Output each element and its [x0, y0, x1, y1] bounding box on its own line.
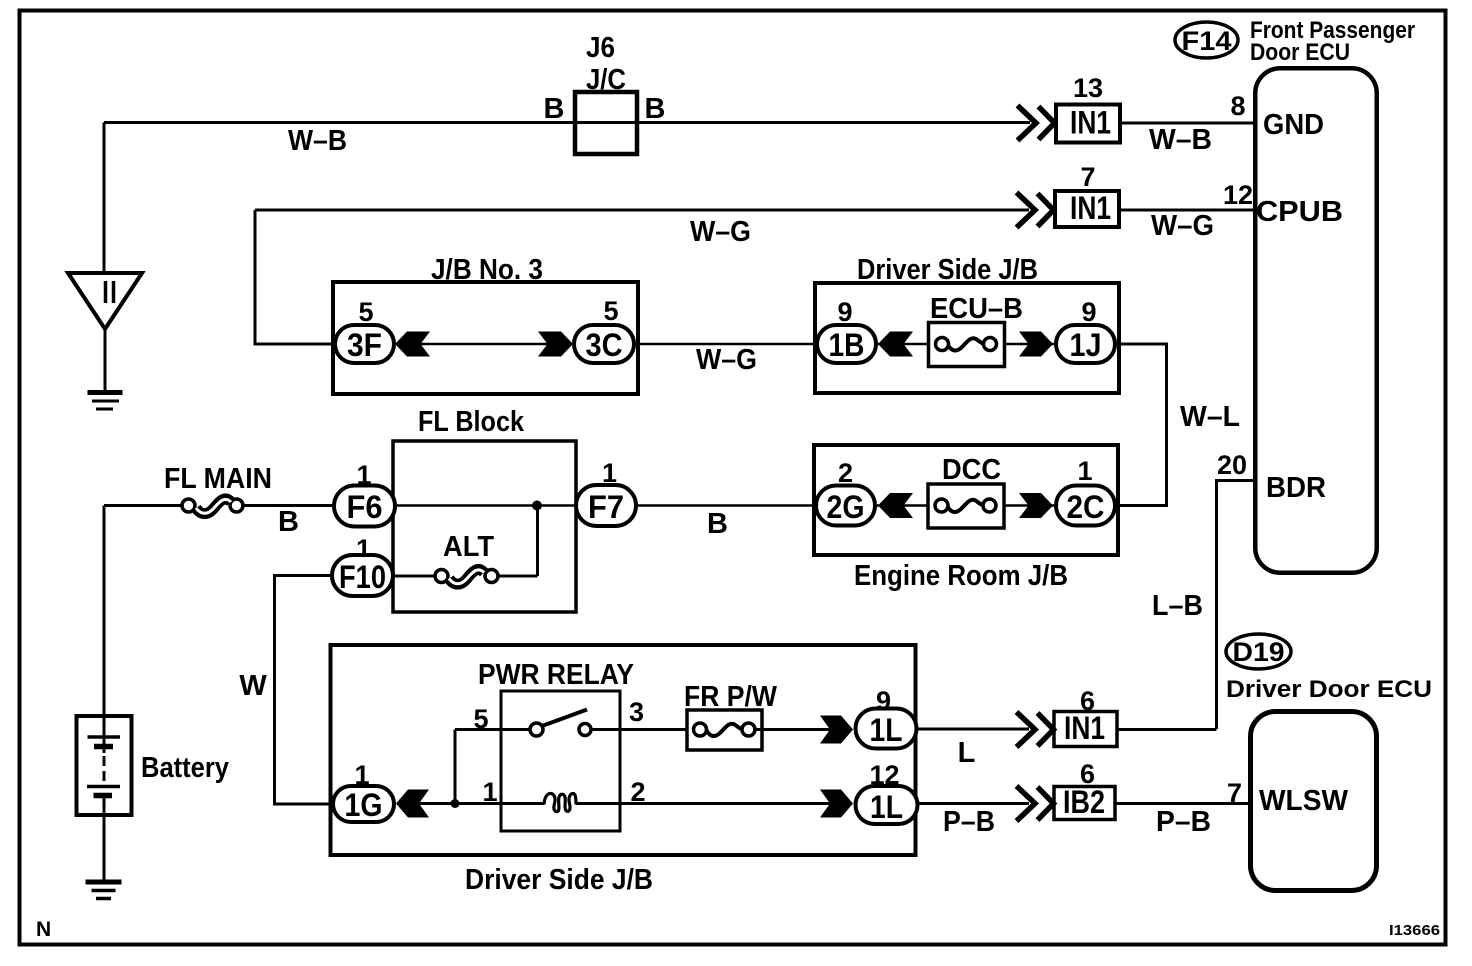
svg-text:5: 5: [358, 297, 373, 327]
svg-text:9: 9: [837, 297, 852, 327]
connector F10 pill: [332, 555, 393, 596]
wire battery to chassis ground: [103, 798, 106, 880]
svg-text:J/C: J/C: [586, 64, 626, 96]
svg-text:Driver Side J/B: Driver Side J/B: [465, 864, 653, 896]
wire pin5: [455, 728, 530, 731]
wire W-B top horizontal: [104, 121, 1030, 124]
connector D19 oval: [1226, 634, 1291, 669]
connector 1B pill: [817, 325, 876, 363]
fuse FR P/W box: [687, 710, 762, 750]
svg-text:1G: 1G: [345, 787, 383, 823]
wire pin5 vertical from junction: [454, 730, 457, 804]
svg-text:3: 3: [629, 697, 644, 727]
wire 2G to fuse: [876, 504, 938, 507]
svg-text:D19: D19: [1233, 637, 1285, 667]
wire W-G horizontal: [255, 209, 1029, 212]
junction block Driver Side J/B lower box: [331, 645, 916, 855]
connector F14 oval: [1175, 22, 1238, 58]
svg-text:W–B: W–B: [1149, 124, 1212, 156]
svg-text:B: B: [645, 93, 666, 125]
wire triangle to chassis ground: [104, 329, 107, 391]
svg-text:B: B: [278, 506, 299, 538]
relay coil: [544, 793, 576, 811]
svg-text:B: B: [544, 93, 565, 125]
svg-text:P–B: P–B: [943, 806, 995, 838]
wire 3C to 1B: [634, 343, 817, 346]
svg-text:Engine Room J/B: Engine Room J/B: [854, 560, 1068, 592]
svg-text:20: 20: [1217, 450, 1247, 480]
svg-text:W: W: [239, 670, 267, 702]
wire fuse to 1L top: [755, 728, 831, 731]
connector IN1 pin6 box: [1054, 712, 1117, 747]
junction block J/B No.3 box: [333, 282, 638, 394]
junction dot on F6-F7 wire: [532, 501, 542, 511]
svg-text:FR P/W: FR P/W: [684, 681, 778, 713]
svg-text:BDR: BDR: [1266, 472, 1326, 504]
body ground triangle with II: [68, 273, 142, 329]
svg-text:2C: 2C: [1067, 489, 1105, 525]
wire IN1 to L-B: [1117, 728, 1217, 731]
chevrons into IN1 pin6: [1017, 712, 1054, 747]
connector 1L bottom pill: [856, 786, 918, 824]
svg-text:1L: 1L: [870, 789, 903, 825]
FL Block box: [393, 441, 576, 612]
wire BDR to L-B vertical: [1217, 481, 1254, 730]
connector F6 pill: [334, 486, 395, 527]
chevrons into IB2: [1017, 786, 1054, 821]
wire coil to pin2 out: [576, 802, 831, 805]
svg-text:1B: 1B: [829, 327, 865, 363]
Driver Door ECU outline: [1251, 712, 1377, 891]
fuse ECU-B box: [929, 323, 1005, 367]
svg-text:P–B: P–B: [1156, 806, 1211, 838]
wire F6 to F7: [395, 504, 576, 507]
wire W-G vertical down to 3F: [255, 210, 334, 344]
chassis ground top-left: [88, 390, 123, 395]
svg-text:13: 13: [1073, 73, 1103, 103]
wire W-B vertical to body ground: [103, 123, 106, 274]
wire F10 through ALT up to junction: [393, 508, 538, 576]
chevrons into IN1 pin13: [1018, 106, 1055, 141]
svg-text:1: 1: [1077, 456, 1092, 486]
wire F7 to 2G: [636, 504, 817, 507]
svg-text:W–G: W–G: [690, 216, 751, 248]
svg-text:F14: F14: [1182, 26, 1232, 56]
svg-text:ECU–B: ECU–B: [930, 293, 1023, 325]
svg-text:W–B: W–B: [288, 125, 347, 157]
svg-text:1J: 1J: [1070, 327, 1102, 363]
wire F10 to W vertical to 1G: [275, 576, 334, 805]
wire battery to FL MAIN to F6: [104, 504, 334, 507]
connector F7 pill: [576, 485, 636, 526]
svg-text:Driver Door ECU: Driver Door ECU: [1226, 676, 1432, 703]
fuse FR P/W symbol: [694, 723, 707, 736]
connector 1J pill: [1056, 325, 1115, 363]
wire 3F to 3C: [394, 343, 574, 346]
svg-text:1L: 1L: [870, 712, 903, 748]
battery box: [77, 716, 132, 815]
wire 1L to IN1: [917, 728, 1030, 731]
wire 1J to W-L vertical down to 2C: [1115, 344, 1167, 506]
svg-text:I13666: I13666: [1389, 922, 1440, 939]
svg-text:9: 9: [1081, 297, 1096, 327]
arrow right at 2C: [1019, 493, 1053, 518]
svg-text:F7: F7: [588, 489, 624, 525]
arrow right at 3C: [538, 332, 573, 357]
svg-text:W–G: W–G: [1151, 210, 1214, 242]
chassis ground battery: [86, 880, 122, 885]
wire IB2 to WLSW: [1115, 802, 1249, 805]
svg-text:3C: 3C: [586, 327, 623, 363]
svg-text:CPUB: CPUB: [1256, 196, 1343, 228]
svg-text:L: L: [958, 737, 976, 769]
svg-text:N: N: [36, 918, 51, 941]
wire battery vertical: [103, 506, 106, 738]
svg-text:WLSW: WLSW: [1259, 785, 1349, 817]
connector 2G pill: [816, 486, 875, 526]
wire fuse to 1J: [994, 343, 1056, 346]
connector IN1 pin 13 box: [1056, 105, 1120, 143]
wire IN1 to GND pin: [1120, 122, 1253, 125]
fusible link ALT symbol: [435, 570, 448, 583]
connector 1G pill: [333, 786, 394, 822]
svg-text:F10: F10: [339, 559, 386, 595]
svg-text:F6: F6: [347, 489, 383, 525]
svg-text:6: 6: [1080, 686, 1095, 716]
wire 1B to fuse: [876, 343, 938, 346]
svg-text:GND: GND: [1263, 109, 1324, 141]
svg-text:B: B: [707, 508, 728, 540]
svg-text:7: 7: [1080, 162, 1095, 192]
junction dot pin1: [451, 799, 460, 808]
svg-text:DCC: DCC: [942, 454, 1001, 486]
wire fuse to 2C: [994, 504, 1056, 507]
fuse DCC box: [928, 484, 1004, 528]
wire IN1 to CPUB pin: [1119, 209, 1253, 212]
chevrons into IN1 pin7: [1017, 193, 1054, 228]
svg-text:6: 6: [1080, 759, 1095, 789]
arrow left at 1B: [878, 332, 913, 357]
connector 1L top pill: [856, 709, 917, 749]
fuse DCC symbol: [935, 499, 948, 512]
svg-text:PWR RELAY: PWR RELAY: [478, 659, 634, 691]
svg-text:IN1: IN1: [1070, 105, 1111, 141]
svg-text:W–L: W–L: [1180, 401, 1240, 433]
svg-text:12: 12: [1223, 180, 1253, 210]
Front Passenger Door ECU outline: [1255, 68, 1377, 573]
relay switch contacts: [530, 723, 543, 736]
arrow left at 1G: [396, 790, 429, 818]
svg-text:FL Block: FL Block: [418, 406, 525, 438]
svg-text:L–B: L–B: [1152, 590, 1203, 622]
relay PWR RELAY box: [501, 691, 620, 831]
arrow left at 3F: [395, 332, 430, 357]
wire 1G arrow to relay pin1: [419, 802, 544, 805]
junction block Driver Side J/B upper box: [815, 283, 1119, 393]
connector 3F pill: [335, 325, 394, 363]
connector IN1 pin 7 box: [1055, 191, 1119, 227]
junction block Engine Room J/B box: [814, 445, 1118, 555]
fusible link FL MAIN symbol: [182, 499, 195, 512]
arrow right at 1J: [1019, 332, 1053, 357]
arrow right at 1L top: [820, 716, 853, 744]
svg-text:FL MAIN: FL MAIN: [164, 463, 272, 495]
svg-text:J6: J6: [586, 32, 615, 64]
arrow left at 2G: [878, 493, 913, 518]
connector 3C pill: [574, 325, 634, 363]
svg-text:Battery: Battery: [141, 752, 229, 784]
svg-text:IN1: IN1: [1070, 190, 1111, 226]
svg-text:7: 7: [1227, 778, 1242, 808]
svg-text:ALT: ALT: [443, 531, 494, 563]
svg-text:Door ECU: Door ECU: [1250, 39, 1350, 66]
connector IB2 box: [1054, 787, 1115, 820]
svg-text:2G: 2G: [827, 489, 865, 525]
arrow right at 1L bottom: [820, 790, 853, 818]
wire 1L to IB2: [918, 802, 1030, 805]
svg-text:8: 8: [1230, 91, 1245, 121]
svg-text:W–G: W–G: [696, 344, 757, 376]
battery plates: [88, 735, 121, 739]
svg-text:IB2: IB2: [1063, 784, 1105, 820]
svg-text:3F: 3F: [347, 327, 382, 363]
svg-text:5: 5: [603, 296, 618, 326]
wire switch to pin3 out: [591, 728, 693, 731]
fuse ECU-B symbol: [936, 338, 949, 351]
connector 2C pill: [1056, 486, 1115, 526]
junction connector J6 J/C box: [575, 92, 637, 154]
